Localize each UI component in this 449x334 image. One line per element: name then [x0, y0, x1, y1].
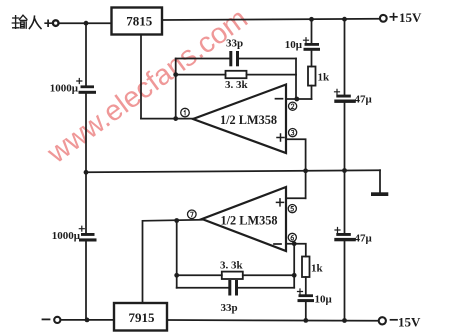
svg-text:1k: 1k [311, 263, 324, 275]
node pin6 feedback junction [292, 241, 297, 246]
wire pin3 to midline [286, 139, 306, 198]
wire 3.3k line right bottom [243, 274, 294, 276]
wire pin6 to 1k bottom [286, 244, 306, 257]
ground [371, 192, 388, 196]
resistor R3 3.3k [220, 260, 244, 280]
resistor R4 1k [302, 257, 324, 278]
pin 2 [289, 102, 297, 110]
input terminal [53, 20, 59, 26]
node 3.3k right junction bottom [292, 273, 297, 278]
label 输入 (input) [12, 15, 41, 28]
node input junction [84, 21, 89, 26]
wire feedback vertical right (top amp) [295, 59, 297, 100]
wire feedback vertical left (bottom amp) [176, 221, 178, 288]
wire 47u branch upper [344, 19, 346, 170]
wire 7815 gnd to op-amp output [141, 118, 193, 120]
node 47u rail junction [342, 318, 347, 323]
node rail x345 [342, 17, 347, 22]
pin 5 [288, 205, 296, 213]
node U2b output junction [174, 218, 179, 223]
wire ground drop [379, 170, 381, 192]
svg-text:1/2 LM358: 1/2 LM358 [220, 113, 277, 127]
terminal -15V [379, 317, 386, 324]
node pin2 feedback junction [294, 97, 299, 102]
pin 6 [288, 233, 296, 241]
svg-text:1k: 1k [318, 72, 331, 84]
capacitor C2 1000u [52, 226, 97, 242]
op-amp U2a 1/2 LM358 (top) [193, 85, 286, 154]
svg-text:47μ: 47μ [355, 94, 373, 106]
svg-text:33p: 33p [221, 302, 238, 314]
label -15V [391, 315, 422, 330]
svg-text:3. 3k: 3. 3k [220, 260, 244, 272]
wire feedback vertical left (top amp) [175, 59, 177, 119]
svg-text:7815: 7815 [126, 14, 153, 29]
wire 3.3k line left [176, 74, 226, 76]
node rail-left bottom [85, 318, 90, 323]
wire U2b output to 7915 gnd [143, 220, 203, 303]
node top op-amp output junction [173, 116, 178, 121]
svg-text:1000μ: 1000μ [50, 83, 79, 95]
pin 7 [188, 210, 197, 219]
wire pin5 (bottom amp +) [286, 197, 306, 199]
svg-text:3. 3k: 3. 3k [225, 79, 249, 91]
wire feedback vertical right (bottom amp) [293, 244, 295, 288]
node rail x312 [309, 17, 314, 22]
capacitor C1 1000u [50, 79, 96, 95]
wire 33p line left [176, 58, 230, 60]
wire 3.3k line left bottom [177, 274, 222, 276]
wire 47u branch lower [344, 171, 346, 321]
wire 7815 output to +15V rail [162, 19, 380, 20]
op-amp U2b 1/2 LM358 (bottom) [202, 187, 286, 251]
node feedback 3.3k tap bottom [174, 273, 179, 278]
capacitor C7 33p [221, 280, 239, 314]
wire 33p line right bottom [238, 287, 294, 289]
wire left rail middle [85, 94, 87, 233]
svg-text:10μ: 10μ [315, 294, 333, 306]
svg-text:15V: 15V [399, 10, 422, 25]
wire -15V rail [61, 319, 379, 322]
wire 3.3k line right [247, 74, 297, 76]
node midline x344.5 [342, 168, 347, 173]
pin 1 [181, 108, 190, 117]
regulator U3 7915 [114, 303, 167, 331]
wire 7815 ground pin down [140, 35, 142, 119]
regulator U1 7815 [112, 8, 163, 35]
capacitor C3 33p [226, 38, 243, 67]
capacitor C8 10u [298, 289, 333, 306]
node 10u rail junction [303, 318, 308, 323]
node midline-left [84, 170, 89, 175]
svg-text:7915: 7915 [129, 310, 156, 325]
svg-text:1/2 LM358: 1/2 LM358 [220, 213, 277, 227]
label + (input polarity) [45, 20, 51, 26]
wire input to 7815 [59, 22, 112, 24]
svg-text:15V: 15V [398, 315, 421, 330]
svg-text:47μ: 47μ [355, 233, 373, 245]
wire 33p line left bottom [177, 287, 229, 289]
resistor R2 1k [308, 67, 330, 86]
wire midline (virtual ground) [86, 170, 380, 172]
capacitor C6 47u [334, 228, 372, 245]
capacitor C4 10u [285, 38, 320, 51]
wire 1k to 10u bottom [305, 277, 307, 294]
wire left rail upper [85, 23, 87, 85]
node midline x305.6 [303, 168, 308, 173]
terminal +15V [380, 15, 387, 22]
wire left rail lower [85, 242, 87, 321]
svg-text:33p: 33p [226, 38, 243, 50]
output terminal [54, 317, 60, 323]
svg-text:10μ: 10μ [285, 39, 303, 51]
wire pin2 to 1k [286, 98, 312, 100]
capacitor C5 47u [334, 89, 372, 105]
label - (output polarity) [43, 318, 50, 320]
resistor R1 3.3k [225, 71, 249, 91]
wire 10u/1k branch vertical [311, 19, 313, 99]
pin 3 [289, 129, 297, 137]
wire 33p line right [239, 58, 296, 60]
svg-text:1000μ: 1000μ [52, 230, 81, 242]
label +15V [390, 10, 422, 25]
wire 10u to bottom rail [305, 302, 307, 320]
node feedback 3.3k tap [173, 72, 178, 77]
